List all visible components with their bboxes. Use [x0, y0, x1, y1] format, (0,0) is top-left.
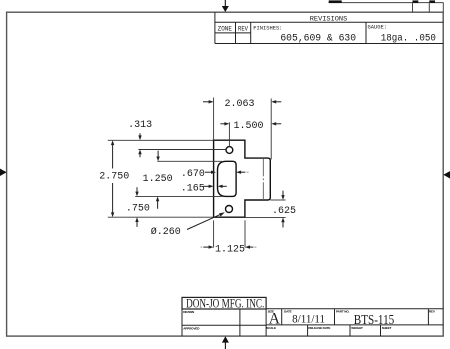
finishes/gauge divider	[365, 22, 367, 43]
svg-text:GAUGE:: GAUGE:	[368, 25, 387, 31]
scale/release-date divider	[307, 325, 309, 336]
ext line left edge above part	[213, 98, 215, 141]
bend line (dash-dot)	[262, 159, 264, 200]
title block: DON-JO box	[182, 297, 266, 309]
title block lines	[182, 309, 443, 336]
dimension .750	[135, 187, 138, 227]
svg-text:.625: .625	[272, 206, 296, 217]
svg-text:DON-JO MFG. INC.: DON-JO MFG. INC.	[186, 296, 264, 311]
svg-text:WEIGHT: WEIGHT	[351, 326, 363, 330]
revisions table lines	[215, 12, 443, 43]
svg-text:ZONE: ZONE	[218, 25, 232, 32]
top hole	[226, 147, 233, 154]
ext line plate left below	[213, 220, 215, 247]
part outline	[214, 140, 271, 217]
svg-text:SCALE: SCALE	[266, 326, 276, 330]
dimension .313	[138, 133, 141, 157]
svg-text:605,609 & 630: 605,609 & 630	[280, 34, 356, 45]
svg-text:.750: .750	[126, 204, 150, 215]
svg-text:PART NO.: PART NO.	[336, 310, 350, 314]
svg-text:8/11/11: 8/11/11	[292, 312, 325, 326]
title block middle row line	[266, 324, 443, 326]
drawn/approved row divider	[182, 324, 266, 326]
revisions table left edge	[214, 12, 216, 43]
svg-text:.313: .313	[128, 120, 152, 131]
top edge tick 1	[329, 0, 342, 3]
ext line lip right edge above	[270, 99, 272, 160]
top edge vertical divider 1	[412, 3, 414, 13]
dimension .670	[205, 171, 249, 174]
dimension 1.250	[156, 151, 160, 209]
dimension 1.125	[201, 245, 257, 248]
left section vertical divider	[239, 309, 241, 336]
ext line part bottom to left	[108, 216, 214, 218]
revisions table bottom edge	[215, 43, 443, 45]
title block top edge (right section)	[266, 308, 443, 310]
dimension .625	[281, 191, 284, 228]
svg-text:2.063: 2.063	[224, 99, 254, 110]
dimension 2.063	[203, 100, 281, 103]
ext line cutout bottom to left	[135, 195, 222, 197]
top edge right end vertical	[442, 3, 444, 13]
ext line hole centerline above part	[228, 122, 230, 146]
top edge tick 2	[413, 0, 419, 3]
ext line part top to left	[108, 139, 214, 141]
right centering arrow	[443, 171, 450, 178]
latch cutout	[218, 161, 237, 196]
release-date/weight divider	[349, 325, 351, 336]
svg-text:REVISIONS: REVISIONS	[310, 16, 348, 23]
bottom centering arrow	[222, 336, 229, 349]
top edge vertical divider 2	[428, 3, 430, 13]
svg-text:FINISHES:: FINISHES:	[253, 26, 282, 32]
bottom hole	[226, 206, 233, 213]
ext line part bottom to right	[246, 216, 286, 218]
weight/sheet divider	[380, 325, 382, 336]
svg-text:RELEASE DATE: RELEASE DATE	[308, 326, 330, 330]
svg-text:.670: .670	[181, 169, 205, 180]
svg-text:SHEET: SHEET	[382, 326, 392, 330]
svg-text:18ga. .050: 18ga. .050	[381, 33, 436, 44]
left/right section divider	[265, 309, 267, 336]
size/date divider	[281, 309, 283, 325]
svg-text:Ø.260: Ø.260	[151, 226, 181, 238]
dimension .165	[203, 185, 227, 188]
revisions header underline	[215, 21, 443, 23]
svg-text:2.750: 2.750	[99, 171, 129, 182]
svg-text:DATE: DATE	[284, 310, 292, 314]
svg-text:.165: .165	[181, 183, 205, 194]
top edge line (sheet edge, top right)	[329, 2, 444, 4]
top edge tick 3	[429, 0, 435, 3]
rev/finishes divider	[250, 22, 252, 43]
svg-text:1.250: 1.250	[143, 174, 173, 185]
zone/rev label row underline	[215, 32, 251, 34]
ext line hole center to left	[138, 149, 226, 151]
svg-text:1.500: 1.500	[233, 121, 263, 132]
svg-text:APPROVED: APPROVED	[183, 326, 200, 330]
leader and text for hole diameter .260	[187, 212, 225, 229]
top centering arrow	[222, 0, 229, 12]
ext line plate right below	[244, 220, 246, 247]
ext line cutout top to left	[157, 160, 222, 162]
svg-text:REV: REV	[238, 25, 248, 32]
part-no/rev divider	[427, 309, 429, 325]
svg-text:DRAWN: DRAWN	[183, 310, 195, 314]
svg-text:1.125: 1.125	[215, 245, 245, 256]
left centering arrow	[0, 169, 7, 176]
title block left edge	[181, 309, 183, 336]
dimension 2.750	[111, 140, 114, 217]
extension lines	[108, 98, 286, 248]
dimension 1.500	[220, 122, 281, 125]
zone/rev divider	[235, 22, 237, 43]
ext line lip bottom to right	[270, 199, 285, 201]
date/part-no divider	[334, 309, 336, 325]
